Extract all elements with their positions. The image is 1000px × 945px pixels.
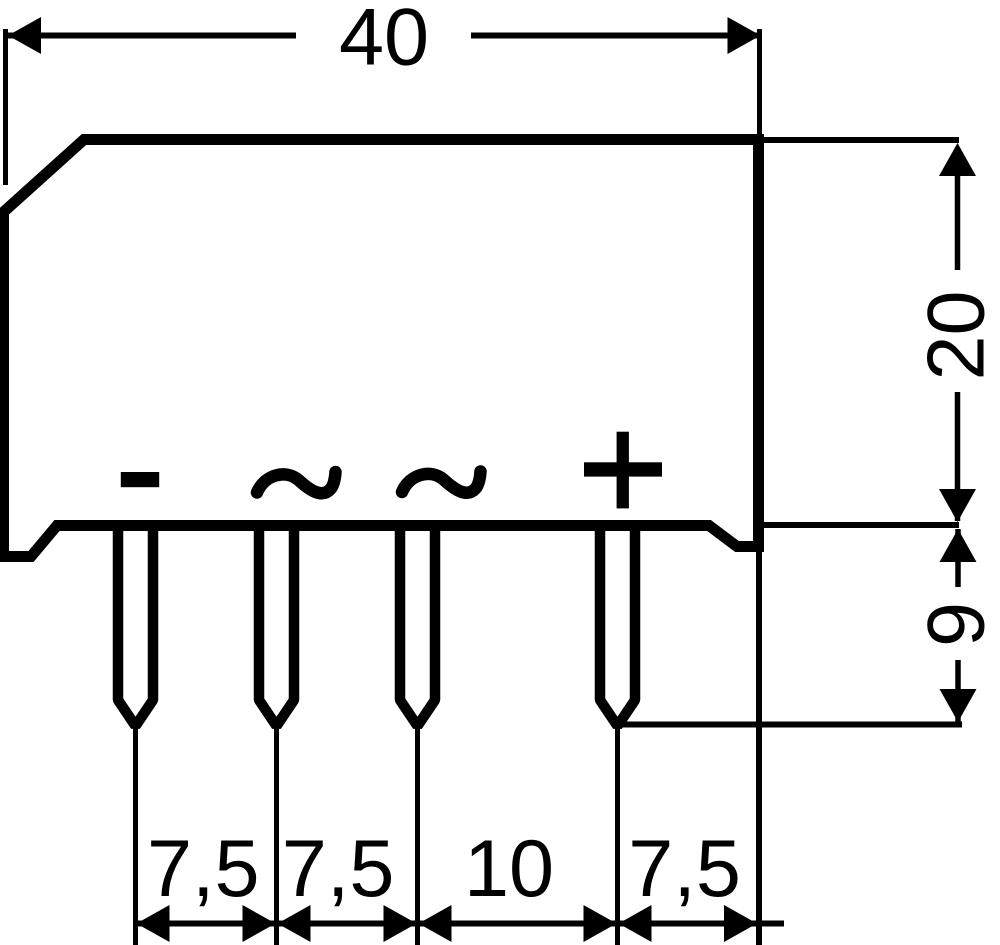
svg-text:20: 20	[912, 290, 1000, 380]
dimension 20: top extension line	[764, 137, 959, 143]
svg-text:7,5: 7,5	[628, 824, 741, 914]
minus label for pin 1	[121, 472, 159, 487]
dimension 40: line left segment	[8, 33, 296, 39]
extension line below body right edge	[756, 552, 762, 945]
dimension 40: right extension line	[757, 29, 762, 136]
svg-text:7,5: 7,5	[147, 824, 260, 914]
dimension 20: line upper segment	[955, 155, 961, 270]
dimension 40: right arrowhead	[728, 17, 761, 54]
dimension 20: middle extension line (shoulder)	[764, 522, 959, 528]
extension line below pin 2	[274, 727, 279, 945]
pin 2 (~) lead	[259, 526, 294, 727]
svg-text:7,5: 7,5	[282, 824, 395, 914]
pitch 7,5 arrowhead right (pin2)	[243, 905, 276, 942]
pitch 7,5 arrowhead right (body edge)	[724, 905, 757, 942]
pitch 7,5 arrowhead right (pin3)	[384, 905, 417, 942]
svg-text:40: 40	[339, 0, 429, 83]
dimension 40: left extension line	[3, 29, 8, 185]
pin 4 (+) lead	[600, 526, 635, 727]
svg-text:10: 10	[464, 824, 554, 914]
AC tilde label for pin 2	[257, 472, 336, 493]
extension line below pin 3	[415, 727, 420, 945]
AC tilde label for pin 3	[402, 472, 481, 493]
dimension 9: lower arrowhead	[940, 689, 977, 722]
pin 3 (~) lead	[400, 526, 435, 727]
dimension 9: line lower segment	[955, 660, 961, 722]
dimension 9: line upper segment	[955, 529, 961, 587]
extension line below pin 1	[133, 727, 138, 945]
dimension 20: top arrowhead	[939, 143, 976, 176]
package body outline	[4, 140, 759, 557]
pitch 7,5 arrowhead left (pin4)	[619, 905, 652, 942]
pitch 10 arrowhead right (pin4)	[584, 905, 617, 942]
extension line below pin 4	[615, 727, 620, 945]
pitch 7,5 arrowhead left (pin1)	[137, 905, 170, 942]
pin 1 (-) lead	[118, 526, 153, 727]
dimension 20: bottom arrowhead	[939, 489, 976, 522]
dimension 40: line right segment	[471, 33, 761, 39]
dimension 9: upper arrowhead	[940, 529, 977, 562]
dimension 20: line lower segment	[955, 392, 961, 521]
pitch 10 arrowhead left (pin3)	[419, 905, 452, 942]
bottom dimension line	[136, 921, 785, 927]
plus label for pin 4	[584, 462, 662, 476]
dimension 9: bottom extension line (pin tip level)	[618, 722, 962, 728]
pitch 7,5 arrowhead left (pin2)	[278, 905, 311, 942]
svg-text:9: 9	[912, 602, 1000, 647]
dimension 40: left arrowhead	[8, 17, 41, 54]
